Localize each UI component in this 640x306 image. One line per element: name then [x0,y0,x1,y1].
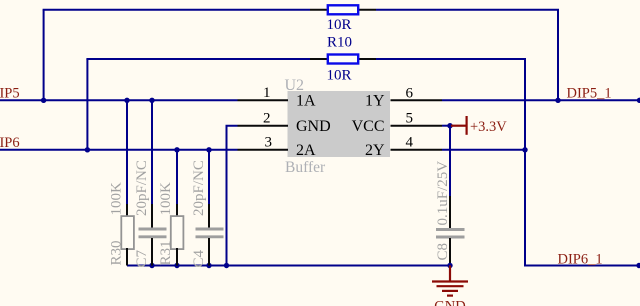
wire: R31 vertical from DIP6 line [176,150,178,204]
svg-text:GND: GND [296,118,331,135]
resistor (top, value 10R): left pin [310,9,328,11]
ground symbol: bar 4 [447,295,453,297]
wire: VCC vertical down to C8 [449,126,451,196]
resistor R10: right pin [359,58,377,60]
wire: R30 vertical from DIP5 line [126,100,128,204]
wire: DIP5 horizontal line from left edge to pin 1 [0,99,238,101]
wire: DIP6 horizontal line from left edge to pin 3 [0,149,238,151]
resistor R31: top pin [176,204,178,218]
junction: R31 on DIP6 line [174,147,179,152]
svg-text:5: 5 [406,110,414,126]
svg-text:R30: R30 [109,240,125,265]
junction: C7 on DIP5 line [149,98,154,103]
capacitor C8: bottom plate [436,236,465,239]
wire: C7 vertical from DIP5 line [151,100,153,204]
svg-text:10R: 10R [326,67,351,83]
capacitor C4: bottom lead [208,238,210,266]
op-amp/buffer U2: body [288,91,391,157]
wire: top-left vertical from top net down to DIP5 line [43,10,45,101]
capacitor C8: bottom lead [449,238,451,266]
capacitor C7: bottom plate [139,235,167,238]
junction: C7 on GND bus [149,263,154,268]
ground symbol: stem [449,266,451,281]
wire: top net left horizontal segment [43,9,310,11]
ground symbol: bar 2 [437,285,464,287]
capacitor C4: bottom plate [196,235,224,238]
wire: top net right horizontal + corner down to DIP5_1 line [376,10,558,101]
svg-text:GND: GND [434,299,465,306]
resistor R30: body [121,216,134,249]
svg-text:10R: 10R [326,17,351,33]
junction: C8 / GND symbol on GND bus [447,263,452,268]
wire: DIP6_1 bottom horizontal to right edge [524,265,640,267]
svg-text:2: 2 [263,110,271,126]
capacitor C8: top plate [436,228,465,231]
resistor R30: top pin [126,204,128,218]
svg-text:VCC: VCC [352,118,385,135]
junction: top vertical on DIP5 line [41,98,46,103]
junction: top net vertical on DIP5_1 line [555,98,560,103]
wire: GND net corner from pin 2 down to bottom bus [227,126,238,266]
power symbol +3.3V: lead [451,125,466,127]
U2 pin 1 [238,99,289,101]
resistor R10: body [328,55,358,64]
svg-text:20pF/NC: 20pF/NC [191,160,207,216]
wire: 2Y net from pin 4 to DIP6_1 vertical [442,149,526,151]
svg-text:1Y: 1Y [365,93,385,110]
svg-text:R10: R10 [327,34,352,50]
wire: bottom GND bus [127,265,450,267]
svg-text:Buffer: Buffer [285,159,326,176]
junction: R30 on DIP5 line [124,98,129,103]
svg-text:3: 3 [265,135,273,151]
junction: C4 on DIP6 line [206,147,211,152]
wire: R10 net left horizontal segment [86,58,310,60]
wire: second vertical from R10 net down to DIP6 line [86,59,88,150]
svg-text:C7: C7 [134,249,150,267]
svg-text:0.1uF/25V: 0.1uF/25V [435,161,451,226]
svg-text:1A: 1A [296,93,316,110]
resistor (top, value 10R): body [328,5,358,14]
svg-text:100K: 100K [109,182,125,216]
svg-text:R31: R31 [158,240,174,265]
svg-text:20pF/NC: 20pF/NC [134,160,150,216]
ground symbol: bar 1 [432,280,468,282]
wire: C4 vertical from DIP6 line [208,150,210,204]
svg-text:DIP5_1: DIP5_1 [567,86,612,102]
resistor R31: body [171,216,184,249]
junction: R31 on GND bus [174,263,179,268]
svg-text:2A: 2A [296,142,316,159]
svg-text:100K: 100K [158,182,174,216]
svg-text:+3.3V: +3.3V [470,119,507,135]
wire: DIP5_1 line from pin 6 to right edge [442,99,640,101]
junction: DIP6_1 at right edge [636,263,640,268]
resistor R30: bottom pin [126,248,128,266]
svg-text:6: 6 [406,85,414,101]
resistor R10: left pin [310,58,328,60]
junction: DIP5_1 at right edge [637,98,640,103]
wire: R10 net right horizontal + vertical down to DIP6_1 line [376,59,525,266]
power symbol +3.3V: bar [466,116,468,135]
U2 pin 2 [238,125,289,127]
U2 pin 4 [391,149,443,151]
svg-text:1: 1 [263,85,271,101]
svg-text:C4: C4 [191,249,207,267]
ground symbol: bar 3 [442,290,458,292]
capacitor C8: top lead [449,196,451,229]
junction: second vertical on DIP6 line [85,147,90,152]
capacitor C4: top lead [208,204,210,229]
capacitor C4: top plate [196,228,224,231]
wire: VCC stub from pin 5 [442,125,451,127]
resistor R31: bottom pin [176,248,178,266]
U2 pin 5 [391,125,443,127]
capacitor C7: bottom lead [151,238,153,266]
junction: C4 on GND bus [206,263,211,268]
resistor (top, value 10R): right pin [359,9,377,11]
junction: 2Y net joins DIP6_1 vertical [522,147,527,152]
svg-text:DIP5: DIP5 [0,86,20,102]
junction: pin-2 GND wire on GND bus [224,263,229,268]
capacitor C7: top plate [139,228,167,231]
junction: pin 5 / +3.3V / C8 [447,123,452,128]
svg-text:U2: U2 [285,77,305,94]
capacitor C7: top lead [151,204,153,229]
svg-text:4: 4 [406,135,414,151]
svg-text:DIP6_1: DIP6_1 [558,251,603,267]
U2 pin 3 [238,149,289,151]
U2 pin 6 [391,99,443,101]
svg-text:C8: C8 [435,243,451,261]
svg-text:2Y: 2Y [365,142,385,159]
